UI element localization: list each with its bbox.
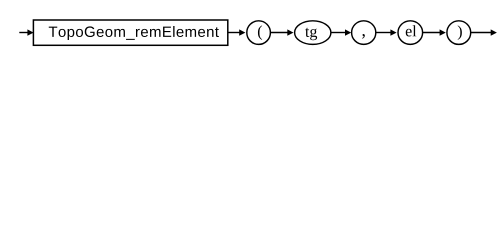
wire: end rail: [471, 32, 492, 34]
label el: [406, 25, 417, 36]
arrowhead into lparen: [239, 29, 245, 35]
wire: box to lparen: [228, 32, 240, 34]
label (: [258, 25, 262, 40]
background: [0, 0, 498, 58]
label TopoGeom_remElement: [49, 26, 219, 40]
arrowhead into tg: [287, 29, 293, 35]
arrowhead into el: [390, 29, 396, 35]
arrowhead into rparen: [440, 29, 446, 35]
terminal ellipse tg: [295, 21, 331, 45]
arrowhead into comma: [345, 29, 351, 35]
terminal circle comma: [352, 21, 376, 45]
terminal circle (: [247, 21, 271, 45]
terminal circle ): [447, 21, 471, 45]
label ,: [362, 34, 365, 39]
label ): [458, 25, 462, 40]
wire: start rail: [19, 32, 28, 34]
terminal ellipse el: [398, 21, 423, 45]
arrowhead end: [491, 29, 497, 35]
arrowhead into box: [27, 29, 33, 35]
wire: tg to comma: [331, 32, 346, 34]
wire: comma to el: [376, 32, 391, 34]
label tg: [305, 28, 317, 40]
wire: lparen to tg: [270, 32, 287, 34]
box TopoGeom_remElement: [33, 20, 227, 45]
wire: el to rparen: [423, 32, 441, 34]
